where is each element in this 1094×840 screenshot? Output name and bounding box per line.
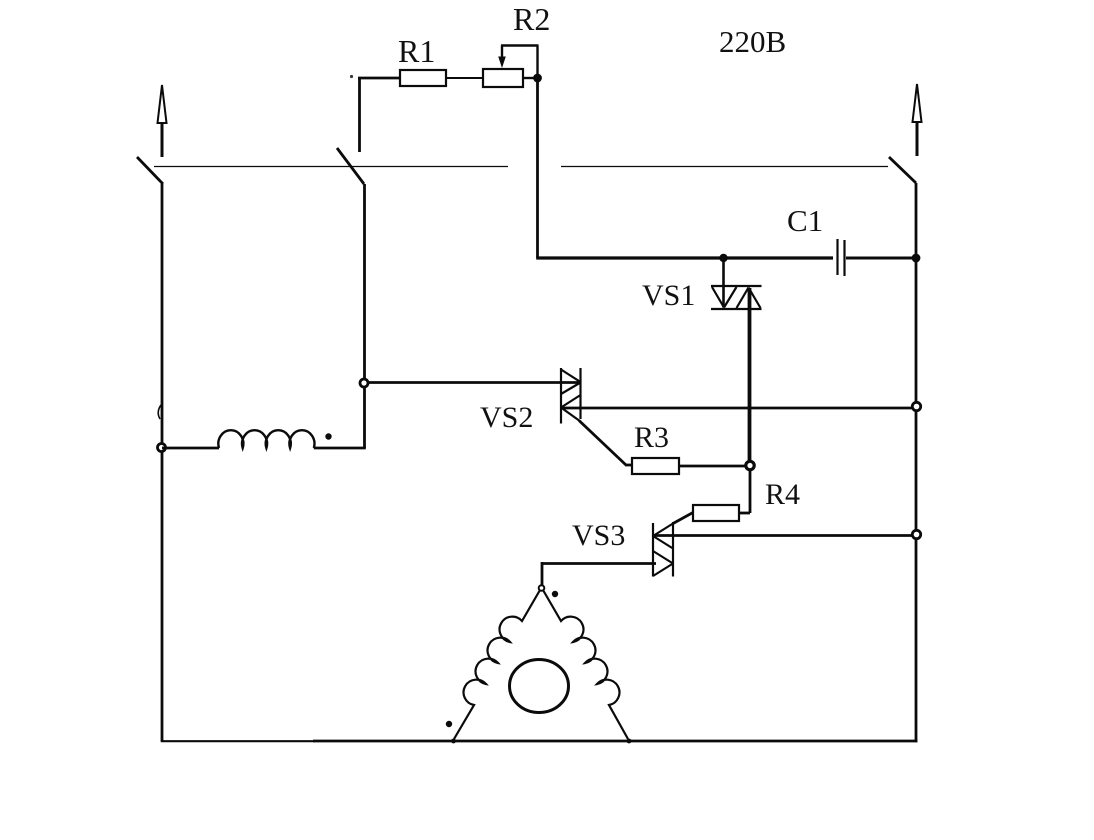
wire VS2 output to right rail	[561, 407, 916, 410]
wire R2 down	[536, 78, 539, 258]
node ring motor top	[539, 585, 545, 591]
wire motor top to VS3	[542, 562, 656, 585]
svg-text:VS1: VS1	[642, 279, 695, 312]
wire middle fixed contact to R1	[358, 77, 400, 152]
motor winding right side	[543, 590, 628, 739]
diac VS1	[711, 258, 762, 309]
arrow right (phase input)	[913, 84, 922, 156]
node ring left rail	[158, 444, 166, 452]
triac VS2	[561, 368, 581, 424]
dot motor left vertex	[451, 739, 456, 744]
wire R1 to R2	[446, 77, 483, 79]
svg-text:220В: 220В	[719, 24, 786, 59]
switch SA1 right blade	[889, 157, 916, 183]
wire node down to R4	[749, 470, 752, 514]
switch SA1 middle blade	[337, 148, 364, 184]
wire left rail	[161, 184, 164, 741]
resistor R3	[632, 458, 679, 474]
dot motor right vertex	[627, 739, 632, 744]
wire bottom rail	[161, 740, 315, 742]
resistor R1	[400, 70, 446, 86]
motor winding left side	[454, 590, 540, 739]
dot motor left winding	[446, 721, 452, 727]
wire left rail to inductor	[162, 447, 219, 450]
node ring right rail VS3	[912, 530, 920, 538]
svg-text:R2: R2	[513, 1, 550, 37]
wire horizontal to C1	[536, 256, 833, 259]
wire VS3 to right rail	[653, 534, 916, 537]
dot inductor	[325, 433, 331, 439]
switch linkage line	[154, 166, 888, 168]
wire riser switch to inductor	[363, 184, 366, 448]
node ring VS2 branch	[360, 379, 368, 387]
wire right rail	[915, 183, 918, 742]
svg-text:C1: C1	[787, 203, 823, 238]
junction dot above VS1	[719, 254, 727, 262]
triac VS3	[653, 522, 673, 577]
junction dot right rail / C1	[912, 254, 921, 263]
motor rotor circle	[510, 660, 569, 713]
potentiometer R2	[483, 46, 539, 88]
wire inductor to riser	[314, 447, 366, 450]
svg-text:R1: R1	[398, 33, 435, 69]
gate wire R4 to VS3	[673, 513, 693, 524]
node ring R3/R4/VS1	[746, 461, 754, 469]
svg-text:R4: R4	[765, 478, 800, 511]
svg-text:VS2: VS2	[480, 401, 533, 434]
dot motor top winding	[552, 591, 558, 597]
scan artifact hook on left rail	[158, 405, 161, 419]
node ring right rail VS2	[912, 402, 920, 410]
capacitor C1	[838, 239, 845, 276]
resistor R4	[693, 505, 739, 521]
inductor L1	[218, 430, 314, 448]
svg-text:R3: R3	[634, 421, 669, 454]
wire node to VS2 input	[363, 381, 580, 384]
scan artifact nub near R1 corner	[350, 75, 353, 78]
junction dot R2 output	[533, 74, 542, 83]
gate wire VS2 to R3	[579, 421, 632, 466]
wire VS1 down to node	[748, 288, 752, 462]
switch SA1 left blade	[137, 157, 163, 184]
wire R3 to node	[679, 465, 746, 468]
wire C1 to right rail	[846, 257, 916, 260]
arrow left (phase input)	[158, 85, 167, 157]
wire R4 right	[739, 512, 750, 515]
svg-text:VS3: VS3	[572, 519, 625, 552]
